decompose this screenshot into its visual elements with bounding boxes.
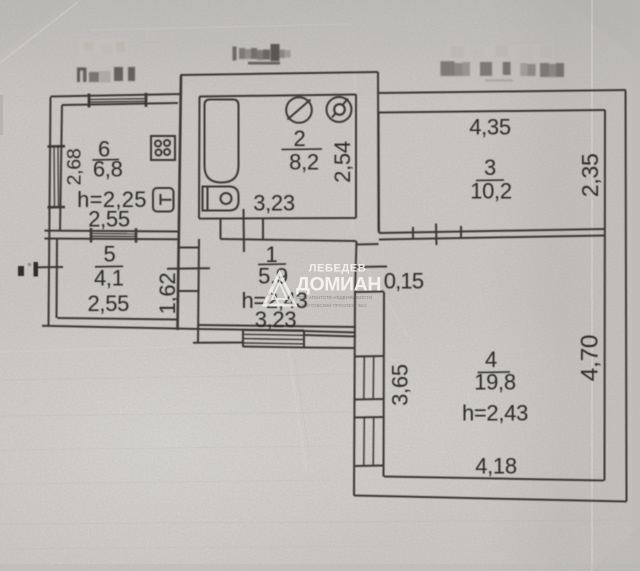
window W2 end ticks xyxy=(48,145,66,148)
svg-text:h=2,43: h=2,43 xyxy=(462,401,528,426)
svg-text:3,65: 3,65 xyxy=(388,364,413,406)
svg-text:10,2: 10,2 xyxy=(470,179,512,204)
door tick room5/room1 xyxy=(167,267,210,270)
room3 top outer xyxy=(378,90,626,93)
room4 outer bottom xyxy=(354,496,627,502)
right outer wall xyxy=(626,90,627,502)
room4 interior left wall xyxy=(383,292,386,477)
steps box xyxy=(242,330,244,347)
svg-text:2,55: 2,55 xyxy=(87,291,129,316)
partition room3/room4 bottom line xyxy=(379,236,604,240)
door tick bath/room1 xyxy=(243,209,246,252)
svg-text:4,35: 4,35 xyxy=(469,115,511,140)
partition door ticks xyxy=(412,227,414,239)
svg-text:1,62: 1,62 xyxy=(155,273,180,315)
bath block top outer xyxy=(181,72,379,75)
vent circle icon 1 xyxy=(286,97,312,123)
window W1 end ticks xyxy=(88,94,91,108)
bath block right outer xyxy=(377,72,380,232)
entrance marker xyxy=(18,266,24,276)
svg-text:2: 2 xyxy=(294,126,306,151)
wall bath/room1 top line xyxy=(199,217,356,220)
svg-text:4,70: 4,70 xyxy=(576,335,603,381)
partition room3/room4 top line xyxy=(379,229,604,233)
svg-text:ДОМИАН: ДОМИАН xyxy=(296,274,381,296)
stove xyxy=(151,136,175,160)
bathtub xyxy=(205,100,239,183)
vent circle icon 2 xyxy=(327,97,352,122)
svg-text:2,54: 2,54 xyxy=(330,141,355,183)
blurred light label top-left xyxy=(79,39,128,63)
svg-text:2,55: 2,55 xyxy=(88,207,130,232)
kitchen top wall outer xyxy=(51,94,182,97)
wall kitchen/room5 top line xyxy=(45,230,178,233)
dark censored label top-center xyxy=(233,44,291,65)
arch hatch in wall kitchen/room5 xyxy=(91,233,136,235)
svg-text:4,18: 4,18 xyxy=(475,454,517,479)
bath block top inner xyxy=(200,95,357,97)
svg-text:3,23: 3,23 xyxy=(253,191,295,216)
door caps room5/room1 xyxy=(178,247,199,249)
kitchen top wall inner xyxy=(62,103,178,105)
room1 bottom inner line xyxy=(199,325,356,327)
creases xyxy=(0,2,78,63)
0,15 dim tick xyxy=(355,266,387,269)
left block outer bottom line xyxy=(42,326,199,329)
wall room5/room1 vertical (kitchen right wall) xyxy=(178,75,182,330)
room1 bottom outer line xyxy=(199,329,304,331)
room4 window box1 xyxy=(355,355,384,358)
wall room5/room1 right line segments xyxy=(198,97,201,219)
room4 window box2 xyxy=(355,416,384,419)
wall kitchen/room5 bottom line xyxy=(45,238,178,241)
room3 left inner wall xyxy=(378,113,381,234)
room3/room4 right inner wall xyxy=(604,110,607,481)
bath inner right wall xyxy=(355,95,357,219)
svg-text:0,15: 0,15 xyxy=(384,269,424,294)
room4 left outer wall xyxy=(354,292,355,496)
wall bath/room1 bottom line xyxy=(221,239,357,241)
svg-text:ПЛАТОВСКИЙ ПРОСПЕКТ 98/2: ПЛАТОВСКИЙ ПРОСПЕКТ 98/2 xyxy=(302,303,367,308)
svg-text:2,35: 2,35 xyxy=(577,154,603,198)
window W1 top wall hatch lines xyxy=(89,98,146,101)
svg-text:2,68: 2,68 xyxy=(64,149,86,186)
toilet xyxy=(203,187,239,211)
fraction underlines xyxy=(93,149,511,373)
sink xyxy=(153,188,174,212)
kitchen left inner wall xyxy=(60,105,62,231)
dark censored label left (Lit.) xyxy=(77,67,135,83)
room5 bottom inner line xyxy=(58,318,178,320)
svg-text:3: 3 xyxy=(484,155,496,180)
left outer wall xyxy=(49,97,51,327)
watermark logo triangle xyxy=(264,273,295,305)
room3 top inner xyxy=(379,110,606,113)
cap of wall bath/room3 xyxy=(357,243,379,246)
0,15 step xyxy=(355,291,384,294)
svg-text:3,23: 3,23 xyxy=(255,307,297,332)
svg-text:СЕТЬ АГЕНТСТВ НЕДВИЖИМОСТИ: СЕТЬ АГЕНТСТВ НЕДВИЖИМОСТИ xyxy=(296,295,373,300)
svg-text:5: 5 xyxy=(104,242,116,267)
svg-text:4,1: 4,1 xyxy=(94,266,124,291)
room5 left inner wall xyxy=(56,239,59,318)
porch bottom line xyxy=(193,342,243,344)
room4 interior bottom xyxy=(384,477,604,481)
room1 right wall lower xyxy=(355,241,357,292)
svg-text:8,2: 8,2 xyxy=(289,150,319,175)
light censored label top-right xyxy=(441,44,565,81)
window W2 left wall hatch lines xyxy=(53,147,56,208)
door caps bath/room1 xyxy=(220,219,222,239)
svg-text:4: 4 xyxy=(485,347,497,372)
